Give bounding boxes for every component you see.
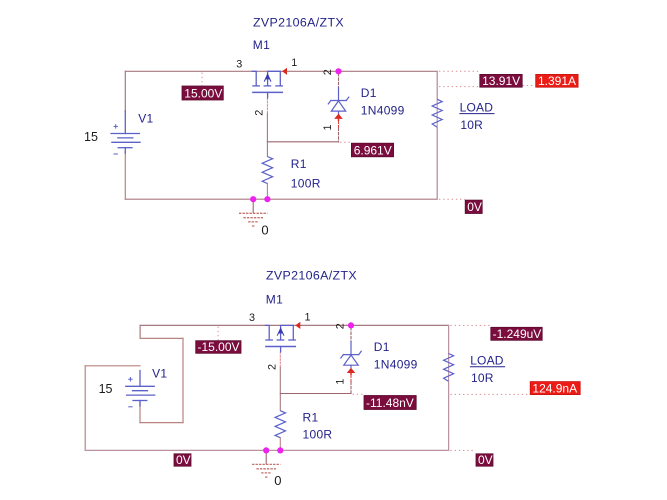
value box 15.00V xyxy=(182,86,223,100)
red current arrow D1 pin1 xyxy=(334,114,343,119)
wire mosfet pin2 dotted part xyxy=(266,98,268,114)
wire mosfet pin2 dotted part (bottom) xyxy=(279,352,281,367)
svg-text:ZVP2106A/ZTX: ZVP2106A/ZTX xyxy=(253,16,344,30)
svg-text:1N4099: 1N4099 xyxy=(361,103,405,117)
wire right rail xyxy=(448,325,450,450)
transistor M1 body arrow (bottom) xyxy=(278,327,283,333)
svg-text:1: 1 xyxy=(305,311,311,323)
wire mid node R1 to D1 xyxy=(267,141,338,143)
svg-text:3: 3 xyxy=(249,312,255,324)
dotted probe line to 6.961V xyxy=(340,141,351,143)
red current arrow D1 pin1 (bottom) xyxy=(347,368,356,373)
dotted probe line to -1.249uV xyxy=(450,324,489,326)
svg-text:3: 3 xyxy=(236,59,242,71)
transistor M1 body arrow xyxy=(265,73,270,79)
wire load top xyxy=(436,71,438,99)
svg-text:LOAD: LOAD xyxy=(460,100,494,114)
wire zener bottom dashed xyxy=(338,128,340,142)
dotted link 13.91V to 1.391A xyxy=(523,85,536,87)
dotted probe line to 15.00V xyxy=(201,73,203,86)
svg-text:1.391A: 1.391A xyxy=(538,74,576,88)
svg-text:124.9nA: 124.9nA xyxy=(532,381,577,395)
value box 0V xyxy=(465,200,482,213)
junction node at ground xyxy=(250,196,256,202)
svg-text:15.00V: 15.00V xyxy=(184,86,222,100)
resistor R1 xyxy=(262,157,272,184)
svg-text:10R: 10R xyxy=(460,118,483,132)
svg-text:13.91V: 13.91V xyxy=(482,74,520,88)
svg-text:2: 2 xyxy=(322,69,334,75)
dotted probe line to 0V xyxy=(439,198,465,200)
value box 0V right xyxy=(476,454,493,466)
svg-text:2: 2 xyxy=(335,323,347,329)
red current arrow M1 pin1 (bottom) xyxy=(295,322,300,329)
wire load bottom xyxy=(436,127,438,199)
svg-text:1: 1 xyxy=(335,379,347,385)
value box 0V left xyxy=(174,454,191,466)
wire zener top dashed xyxy=(338,74,340,89)
junction node at ground (bottom) xyxy=(263,447,269,453)
wire top rail xyxy=(140,324,449,326)
dotted probe line to -11.48nV xyxy=(353,393,364,395)
svg-text:D1: D1 xyxy=(361,86,377,100)
dotted probe line to 124.9nA xyxy=(450,393,529,395)
svg-text:15: 15 xyxy=(99,382,113,396)
battery V1 xyxy=(111,111,140,154)
svg-text:-15.00V: -15.00V xyxy=(198,340,240,354)
svg-text:100R: 100R xyxy=(303,427,333,441)
svg-text:M1: M1 xyxy=(266,292,283,306)
diode D1 zener xyxy=(328,88,349,114)
svg-text:-11.48nV: -11.48nV xyxy=(366,396,414,410)
svg-text:R1: R1 xyxy=(303,411,319,425)
svg-text:M1: M1 xyxy=(253,38,270,52)
transistor M1 (PMOS) xyxy=(252,71,282,97)
wire battery loop right xyxy=(182,338,184,422)
svg-text:ZVP2106A/ZTX: ZVP2106A/ZTX xyxy=(266,269,357,283)
red current arrow M1 pin1 xyxy=(282,68,287,75)
wire left rail down xyxy=(84,366,86,451)
svg-text:1: 1 xyxy=(291,57,297,69)
svg-text:2: 2 xyxy=(253,110,265,116)
svg-text:0V: 0V xyxy=(176,453,191,467)
dotted probe line to 0V right xyxy=(450,449,475,451)
wire battery top to left xyxy=(85,365,140,367)
svg-text:R1: R1 xyxy=(291,157,307,171)
svg-text:2: 2 xyxy=(266,364,278,370)
dotted probe line to -15.00V xyxy=(217,327,219,341)
wire right rail xyxy=(436,71,438,199)
battery V1 (bottom) xyxy=(126,371,155,407)
svg-text:0: 0 xyxy=(274,473,281,488)
svg-text:0V: 0V xyxy=(467,200,482,214)
resistor LOAD xyxy=(432,99,442,127)
resistor R1 (bottom) xyxy=(275,411,285,438)
resistor LOAD (bottom) xyxy=(444,354,454,382)
wire step horizontal xyxy=(140,337,183,339)
wire mosfet pin2 to R1 (bottom) xyxy=(279,368,281,411)
wire zener bottom dashed red (bottom) xyxy=(350,375,352,382)
diode D1 zener (bottom) xyxy=(341,342,362,368)
wire step down xyxy=(139,325,141,338)
value box 124.9nA xyxy=(530,382,580,395)
ground (bottom) xyxy=(252,450,280,477)
transistor M1 (bottom) xyxy=(265,325,295,351)
svg-text:0V: 0V xyxy=(478,453,493,467)
value box 13.91V xyxy=(480,74,522,87)
junction node at R1 bottom xyxy=(264,196,270,202)
svg-text:1N4099: 1N4099 xyxy=(374,357,418,371)
wire load bottom (bottom) xyxy=(448,381,450,450)
junction node at R1 bottom (bottom) xyxy=(277,447,283,453)
value box 1.391A xyxy=(536,74,578,87)
dotted probe line lower to 13.91V xyxy=(439,86,479,88)
wire mid node R1 to D1 xyxy=(280,393,351,395)
svg-text:-1.249uV: -1.249uV xyxy=(493,327,542,341)
value box 6.961V xyxy=(351,143,393,157)
value box -1.249uV xyxy=(491,327,542,340)
wire R1 bottom xyxy=(279,438,281,451)
wire battery bottom lead xyxy=(139,401,141,423)
svg-text:V1: V1 xyxy=(138,112,153,126)
svg-text:LOAD: LOAD xyxy=(470,354,504,368)
wire R1 bottom xyxy=(266,184,268,200)
svg-text:1: 1 xyxy=(322,124,334,130)
dotted probe line to 13.91V xyxy=(439,70,479,72)
ground xyxy=(239,199,267,226)
value box -15.00V xyxy=(196,341,241,354)
wire mosfet pin2 to R1 xyxy=(266,114,268,157)
wire left rail lower xyxy=(124,152,126,199)
wire top rail xyxy=(125,70,437,72)
junction node at D1 top xyxy=(335,68,341,74)
wire left rail upper xyxy=(124,71,126,112)
wire bottom rail xyxy=(85,449,448,451)
svg-text:V1: V1 xyxy=(152,366,167,380)
svg-text:6.961V: 6.961V xyxy=(354,143,392,157)
wire battery loop bottom xyxy=(140,422,183,424)
svg-text:100R: 100R xyxy=(291,176,321,190)
wire zener top dashed (bottom) xyxy=(350,328,352,342)
svg-text:15: 15 xyxy=(84,130,98,144)
svg-text:10R: 10R xyxy=(471,371,494,385)
junction node at D1 top (bottom) xyxy=(348,322,354,328)
svg-text:D1: D1 xyxy=(374,340,390,354)
wire zener bottom dashed red xyxy=(338,121,340,128)
svg-text:0: 0 xyxy=(261,222,268,237)
wire bottom rail xyxy=(125,198,437,200)
wire zener bottom dashed (bottom) xyxy=(350,382,352,394)
value box -11.48nV xyxy=(364,396,416,410)
wire load top xyxy=(448,325,450,353)
